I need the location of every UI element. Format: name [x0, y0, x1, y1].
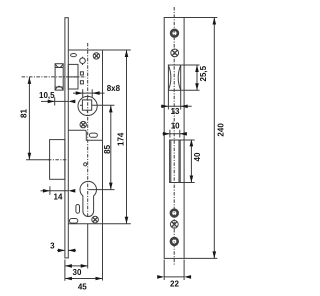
svg-text:45: 45: [78, 282, 87, 291]
svg-text:30: 30: [73, 268, 82, 277]
svg-text:22: 22: [170, 280, 179, 289]
svg-text:10: 10: [171, 121, 180, 130]
svg-text:13: 13: [171, 107, 180, 116]
svg-text:8x8: 8x8: [107, 84, 121, 93]
svg-text:81: 81: [19, 109, 28, 118]
svg-text:240: 240: [217, 123, 226, 137]
svg-text:25,5: 25,5: [199, 65, 208, 81]
svg-text:174: 174: [117, 132, 126, 146]
svg-text:3: 3: [50, 241, 55, 250]
svg-text:10,5: 10,5: [39, 91, 55, 100]
svg-text:85: 85: [103, 144, 112, 153]
svg-text:40: 40: [193, 152, 202, 161]
svg-text:14: 14: [54, 192, 63, 201]
